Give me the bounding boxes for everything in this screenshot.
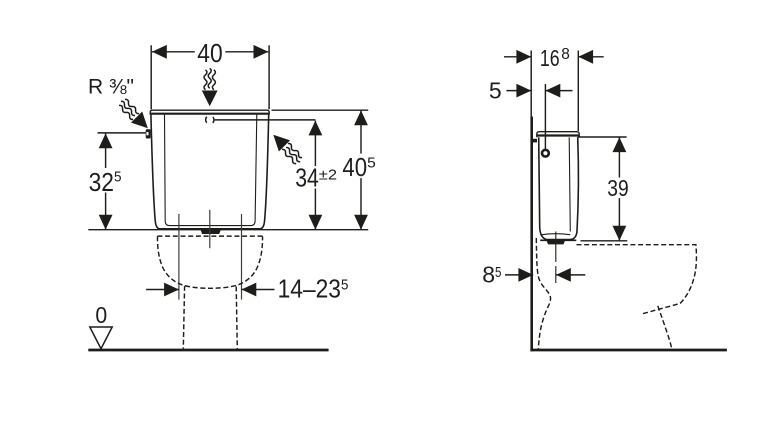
dim 16.8 arrow right	[578, 50, 593, 64]
toilet bowl dashed outline front	[157, 236, 262, 288]
dim 8.5 line left	[505, 274, 533, 276]
toilet pedestal dashed left	[183, 286, 184, 349]
bottom long extension line	[88, 229, 368, 231]
dim 32.5 arrow down	[99, 215, 113, 230]
dim 40 extension line left	[150, 45, 152, 109]
dim 40.5 arrow down	[354, 215, 368, 230]
dim 40.5 dimension line	[360, 110, 362, 229]
dim 16.8 arrow left	[516, 50, 531, 64]
wall extension line	[530, 51, 532, 117]
dim 5 arrow left	[516, 84, 531, 98]
dim 39 dimension line	[618, 137, 620, 240]
dim 40.5 label	[340, 154, 379, 179]
dim 40.5 arrow up	[354, 110, 368, 125]
cistern front: lid	[150, 110, 269, 115]
cistern front: lid bottom line	[151, 113, 269, 115]
dim 16.8 line left	[504, 56, 531, 58]
water inlet fitting left	[146, 129, 151, 138]
water level mark (dashed circle)	[206, 116, 214, 124]
ground line side view	[530, 349, 727, 352]
dim 39 arrow up	[613, 137, 627, 152]
cistern side: body outline	[539, 137, 579, 239]
svg-text:40: 40	[197, 38, 222, 68]
cistern side: inner front wall	[569, 137, 570, 231]
dim 34 dimension line	[314, 121, 316, 230]
dim 16.8 extension line right	[577, 51, 579, 132]
datum triangle	[90, 327, 112, 349]
flush valve outlet side	[547, 241, 565, 245]
dim 39 top extension line	[578, 136, 627, 138]
dim 32.5 top extension line	[98, 132, 146, 134]
dim 34 label	[293, 166, 342, 189]
flush pipe centre line	[555, 232, 557, 263]
dim 14-23.5 line right	[242, 289, 275, 291]
water supply squiggle arrow left	[115, 96, 153, 134]
dim 34 arrow down	[309, 215, 323, 230]
dim 40 label	[195, 43, 226, 63]
cistern side: bottom edge	[540, 239, 576, 241]
wall	[530, 117, 533, 352]
dim 40 arrow left	[152, 45, 167, 59]
dim 39 bottom extension line	[581, 240, 628, 242]
cistern side: inner bottom	[540, 234, 570, 235]
dim 39 arrow down	[613, 226, 627, 241]
dim 34 arrow up	[309, 121, 323, 136]
svg-text:39: 39	[607, 175, 628, 201]
dim 40.5 top extension line	[272, 109, 369, 111]
svg-text:5: 5	[489, 77, 502, 103]
dim 32.5 label	[87, 168, 125, 193]
dim 14-23.5 arrow left	[164, 283, 179, 297]
toilet side dashed: top and front	[577, 245, 697, 314]
toilet side dashed: back + trap	[536, 238, 550, 349]
cistern front: body outline	[151, 115, 269, 229]
dim 8.5 arrow right	[556, 268, 571, 282]
toilet pedestal dashed right	[236, 286, 237, 349]
dim 5 arrow right	[546, 84, 561, 98]
dim 40 arrow right	[254, 45, 269, 59]
svg-text:14–235: 14–235	[278, 274, 349, 304]
centre reference line	[209, 210, 211, 248]
toilet side dashed: pedestal rear	[658, 306, 672, 350]
ground line left view	[88, 349, 328, 352]
cistern front: inner wall lines	[165, 115, 257, 226]
dim 5 line left	[507, 90, 532, 92]
toilet bowl footprint dashed line	[157, 235, 262, 237]
flush actuation squiggle arrow right	[268, 129, 306, 167]
dim 16.8 line right	[578, 56, 603, 58]
flush-water arrow top (squiggle)	[202, 68, 218, 106]
dim 5 line right	[546, 90, 573, 92]
cistern side: lid	[537, 132, 579, 138]
dim 40 extension line right	[268, 45, 270, 109]
dim 39 label	[605, 178, 631, 199]
bolt reference line left	[178, 214, 180, 300]
dim 32.5 dimension line	[105, 133, 107, 229]
dim 14-23.5 line left	[146, 289, 179, 291]
water inlet circle	[542, 150, 549, 157]
dim 14-23.5 arrow right	[242, 283, 257, 297]
dim 8.5 line right	[556, 274, 585, 276]
dim 8.5 arrow left	[518, 268, 533, 282]
bolt reference line right	[241, 214, 243, 300]
water supply stub on wall	[533, 139, 537, 143]
dim 32.5 arrow up	[99, 133, 113, 148]
dim 40 dimension line	[152, 51, 268, 53]
flush valve outlet front	[201, 230, 221, 234]
svg-text:R ⅜": R ⅜"	[88, 76, 134, 99]
svg-text:0: 0	[95, 302, 107, 328]
dim 5 extension line to inlet	[544, 84, 546, 150]
extension line from water mark to dim 34	[215, 119, 316, 121]
